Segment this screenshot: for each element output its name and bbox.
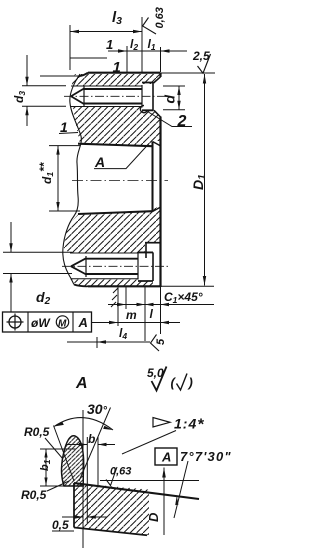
svg-text:(: ( — [171, 375, 177, 390]
dimension d (counterbore) — [163, 86, 185, 110]
dimension d2 (arrows outside) — [10, 222, 12, 312]
hatch lower band — [64, 208, 160, 254]
svg-text:5: 5 — [155, 338, 167, 345]
thread tooth (hatched) — [62, 436, 84, 486]
dimension d1 — [49, 146, 80, 211]
bottom dim block: ext lines — [117, 287, 119, 326]
svg-text:d2: d2 — [36, 289, 51, 307]
top-left corner curve — [79, 73, 88, 76]
tooth right flank extension line — [79, 408, 111, 482]
hatch top band — [72, 74, 161, 87]
horizontal reference line — [100, 480, 199, 482]
hole 2 minor thick lines — [86, 258, 138, 260]
bore axis centerline — [72, 180, 168, 182]
svg-text:): ) — [187, 375, 193, 390]
svg-text:A: A — [78, 315, 88, 330]
ext line right face up — [160, 47, 162, 72]
svg-text:M: M — [58, 319, 67, 330]
taper symbol 1:4 — [153, 418, 170, 428]
hole 1 mouth chamfers — [154, 77, 161, 117]
bore corner chamfer top — [153, 142, 160, 146]
top face — [88, 72, 161, 74]
break line (wavy) — [63, 74, 82, 285]
bore back face — [151, 142, 153, 212]
svg-text:l3: l3 — [112, 9, 122, 27]
slab top edge — [74, 483, 199, 499]
taper leader line — [122, 431, 176, 455]
pipe stub bottom line — [3, 273, 72, 275]
hole 2 thread end — [137, 252, 139, 280]
svg-text:1:4*: 1:4* — [174, 416, 204, 434]
svg-text:d3: d3 — [12, 91, 27, 103]
ext line x98 — [97, 437, 99, 487]
m/l dimension row — [108, 304, 214, 306]
tapered bore walls — [78, 144, 153, 147]
bottom face — [88, 285, 161, 287]
svg-text:1: 1 — [113, 59, 121, 76]
line V2 — [86, 437, 88, 523]
svg-text:øW: øW — [31, 316, 51, 330]
svg-text:R0,5: R0,5 — [24, 425, 50, 439]
svg-text:l: l — [150, 307, 154, 321]
right face upper stub — [159, 73, 161, 77]
roughness 5 mark — [151, 335, 160, 352]
threaded hole 2 (bottom): major thin lines — [70, 252, 138, 254]
svg-text:b: b — [88, 432, 95, 446]
svg-text:30°: 30° — [87, 401, 108, 417]
position label 2 with leader and curl — [140, 105, 147, 112]
svg-text:1: 1 — [106, 37, 113, 52]
datum box A — [155, 448, 177, 465]
dimension d3 — [26, 55, 28, 126]
position symbol — [9, 316, 21, 328]
tooth left flank extension line — [54, 426, 75, 482]
ext line left of l3 — [69, 25, 71, 70]
DETAIL VIEW A — [21, 401, 232, 548]
svg-text:l1: l1 — [148, 37, 156, 52]
dimension l3 line — [70, 31, 142, 33]
svg-text:d1**: d1** — [37, 161, 55, 184]
hole 1 centerline — [64, 95, 168, 97]
bottom-left corner curve — [74, 285, 88, 287]
30 degree arc — [54, 418, 113, 430]
taper slab hatched body — [74, 483, 149, 535]
svg-text:A: A — [161, 450, 171, 465]
hole 1 minor thick lines — [84, 88, 142, 90]
dimension D1 — [161, 72, 215, 74]
svg-text:d: d — [162, 95, 178, 104]
bore corner chamfer bottom — [153, 208, 160, 212]
svg-text:m: m — [126, 308, 137, 322]
threaded hole 1 (top): major thin lines — [71, 85, 142, 87]
dimension l2/l1 line — [108, 50, 187, 52]
recess step lines — [145, 242, 161, 244]
hole 1 drill cone — [71, 89, 84, 105]
svg-text:0,5: 0,5 — [52, 518, 69, 532]
hatch mid band — [73, 107, 160, 146]
row3 line — [67, 341, 150, 343]
right face main — [159, 117, 161, 288]
svg-text:b1: b1 — [39, 459, 52, 471]
svg-text:A: A — [75, 375, 88, 392]
svg-text:A: A — [94, 154, 105, 170]
slab bottom edge — [74, 528, 147, 536]
pipe stub top line — [40, 75, 79, 77]
hole 2 drill cone — [71, 258, 86, 274]
dimension D with datum leader — [163, 468, 165, 536]
svg-text:2: 2 — [177, 113, 187, 130]
dimension b1 — [45, 449, 47, 486]
ext line x142 — [141, 17, 143, 73]
hole 2 counterbore — [138, 252, 153, 281]
hatch bottom band — [70, 279, 153, 286]
svg-text:D1: D1 — [190, 174, 208, 190]
GD&T feature control frame — [3, 312, 92, 332]
svg-text:D: D — [146, 512, 161, 522]
axis line V1 — [82, 410, 84, 548]
svg-text:l2: l2 — [130, 37, 138, 52]
hole 1 counterbore — [142, 83, 154, 111]
l4 dimension row — [92, 322, 180, 324]
svg-text:C1×45°: C1×45° — [164, 290, 203, 305]
ext line x127 — [126, 46, 128, 73]
hole 2 centerline — [62, 265, 168, 267]
slab left edge — [73, 483, 75, 528]
svg-text:0,63: 0,63 — [154, 7, 166, 28]
svg-text:l4: l4 — [119, 326, 127, 341]
svg-text:R0,5: R0,5 — [21, 488, 47, 502]
dimension b — [66, 444, 115, 446]
thin line y58 — [70, 57, 107, 59]
roughness 0,63 mark — [143, 18, 156, 35]
svg-text:0,63: 0,63 — [110, 466, 131, 478]
hole 1 thread end — [141, 85, 143, 108]
